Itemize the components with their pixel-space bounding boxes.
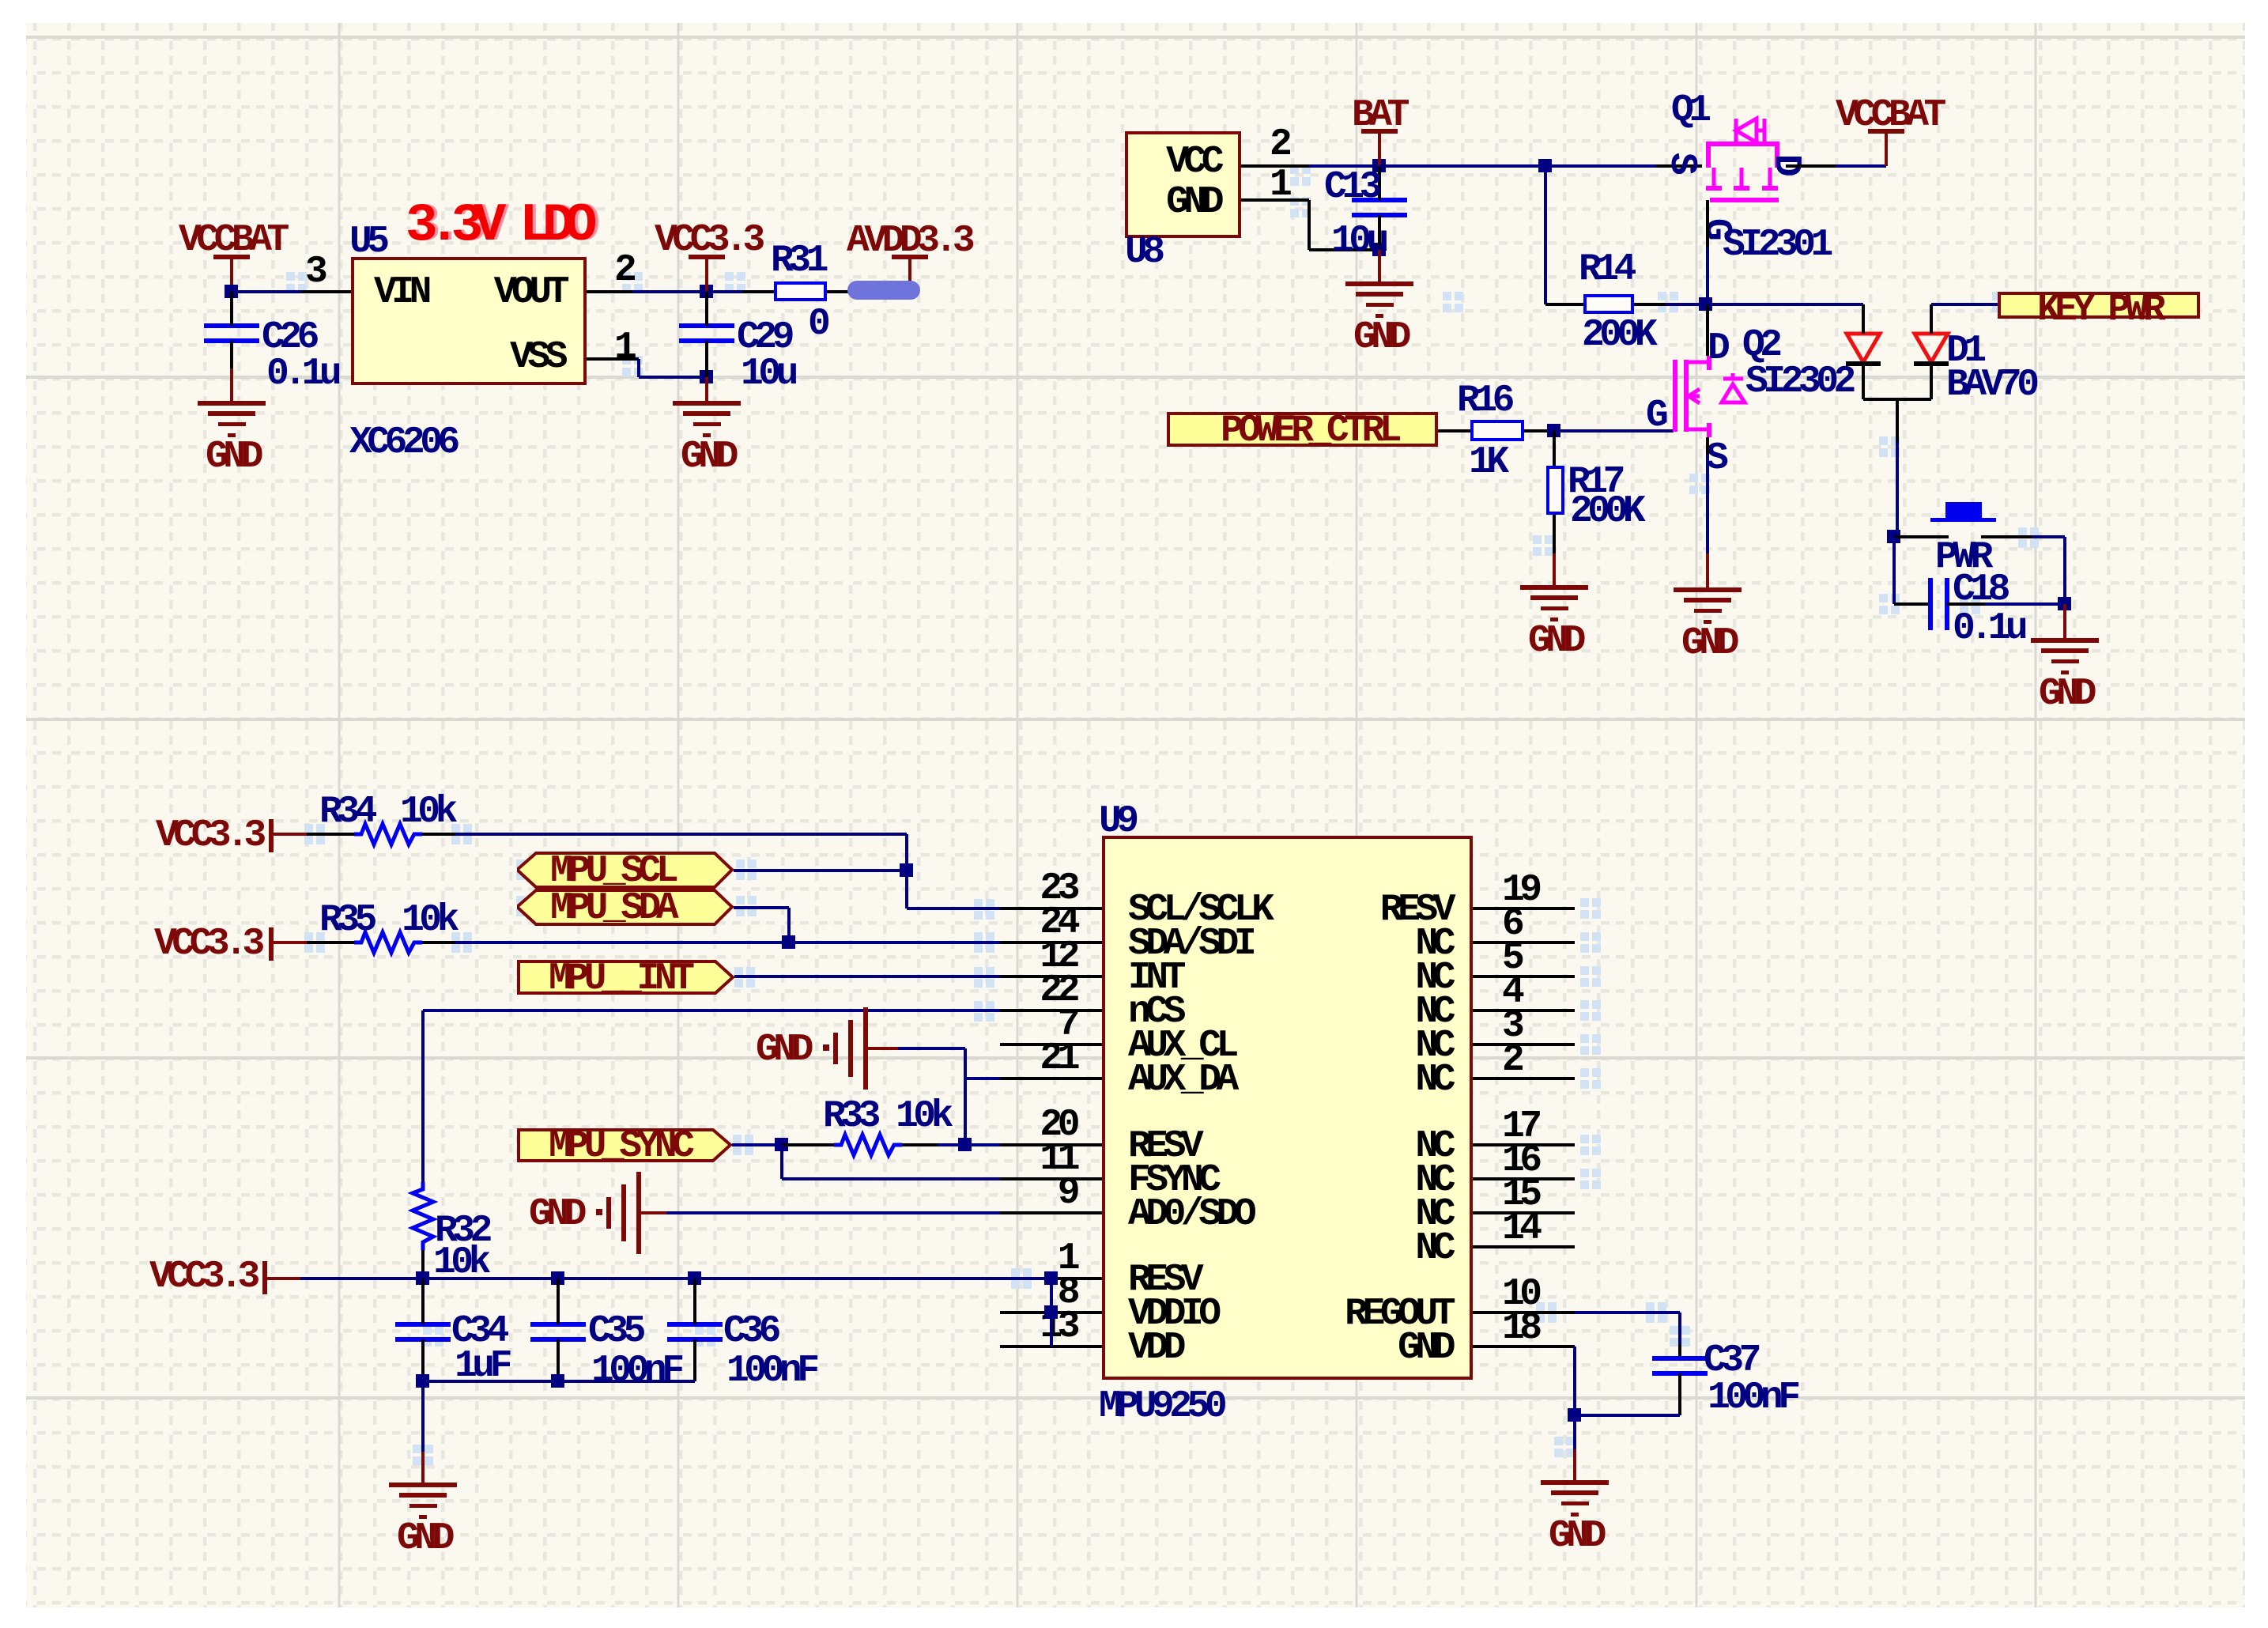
wire	[422, 941, 455, 944]
wire	[734, 869, 907, 872]
wire	[666, 1211, 1000, 1214]
label R32	[435, 1212, 488, 1250]
pin name REGOUT	[739, 1295, 1451, 1333]
label C29	[737, 319, 790, 357]
capacitor C34	[395, 1322, 451, 1327]
resistor R35	[0, 0, 8, 8]
wire	[423, 1380, 695, 1383]
label R35	[319, 901, 372, 939]
label Q2	[1742, 327, 1778, 365]
wire	[423, 1009, 1000, 1012]
wire	[1378, 166, 1381, 200]
wire	[230, 368, 233, 403]
label R34	[319, 793, 372, 831]
wire	[557, 1279, 560, 1324]
port POWER_CTRL	[1167, 412, 1438, 447]
wire	[1573, 1415, 1576, 1449]
capacitor C26	[204, 323, 259, 328]
junction	[551, 1374, 564, 1388]
wire	[965, 1077, 1000, 1080]
label 10k	[896, 1097, 949, 1135]
label U8	[1125, 233, 1160, 271]
wire	[964, 1048, 967, 1145]
wire	[230, 292, 233, 326]
wire	[1544, 166, 1547, 304]
wire pin stub	[1473, 1043, 1575, 1046]
label BAV70	[1946, 366, 2035, 404]
pin label G	[1646, 397, 1663, 435]
wire pin stub	[1473, 1143, 1575, 1146]
pin number 15	[1502, 1176, 1538, 1214]
wire	[557, 1339, 560, 1381]
port MPU__INT	[517, 960, 734, 995]
label U5	[349, 223, 385, 261]
pin name GND	[739, 1329, 1451, 1367]
wire	[1241, 198, 1309, 202]
highlight blob	[847, 281, 920, 300]
ground GND under C18	[2031, 638, 2099, 643]
label 100nF	[591, 1352, 680, 1390]
pin number 8	[364, 1274, 1075, 1312]
wire pin stub	[1473, 1077, 1575, 1080]
capacitor C13	[1352, 198, 1407, 202]
label C36	[723, 1313, 776, 1350]
wire	[307, 833, 354, 836]
wire	[1931, 303, 1998, 306]
wire pin stub	[1473, 1245, 1575, 1248]
wire	[1573, 1449, 1576, 1483]
wire	[1947, 602, 1985, 606]
resistor R16	[1470, 420, 1524, 441]
wire	[693, 1339, 696, 1381]
ground GND under C26	[198, 401, 266, 406]
pin label G	[1697, 218, 1735, 236]
power port VCC3.3	[269, 819, 274, 852]
pin number 20	[364, 1106, 1075, 1144]
power port VCC3.3	[689, 255, 725, 259]
wire	[1666, 303, 1706, 306]
label D	[1708, 330, 1725, 368]
wire	[1985, 602, 2065, 606]
label D1	[1946, 332, 1982, 370]
wire pin stub	[1000, 1143, 1102, 1146]
wire	[587, 290, 632, 293]
wire	[705, 341, 708, 377]
junction	[225, 285, 238, 298]
pin number 14	[1502, 1210, 1538, 1248]
wire	[1309, 164, 1379, 168]
label 10u	[741, 355, 794, 393]
pin number 1	[614, 329, 632, 367]
label C35	[588, 1313, 641, 1350]
junction	[700, 370, 713, 383]
wire	[1678, 1373, 1681, 1415]
wire	[1706, 247, 1709, 304]
wire	[1575, 1311, 1680, 1314]
wire	[1894, 535, 1949, 538]
junction	[1538, 159, 1552, 172]
wire	[1378, 131, 1381, 166]
pin name VDD	[1128, 1329, 1181, 1367]
wire pin stub	[1000, 1277, 1102, 1280]
port MPU_SYNC	[517, 1128, 732, 1162]
wire	[1930, 304, 1933, 334]
wire	[1706, 303, 1863, 306]
wire	[1438, 429, 1470, 432]
wire	[965, 1143, 1000, 1146]
label R31	[771, 242, 824, 280]
wire pin stub	[1000, 1043, 1102, 1046]
IC U9 MPU9250	[1102, 836, 1473, 1380]
wire	[230, 341, 233, 368]
wire	[230, 257, 233, 292]
ground GND under C37	[1541, 1480, 1609, 1485]
wire pin stub	[1000, 907, 1102, 910]
capacitor C36	[667, 1322, 723, 1327]
junction	[958, 1138, 972, 1151]
junction	[1547, 424, 1560, 437]
wire	[1524, 429, 1554, 432]
pin number 23	[364, 870, 1075, 908]
wire	[705, 292, 708, 326]
pin number 6	[1502, 905, 1519, 943]
power port VCCBAT right	[1868, 129, 1904, 134]
resistor R17	[1546, 466, 1564, 515]
IC U5 XC6206	[351, 257, 587, 385]
wire pin stub	[1000, 1177, 1102, 1180]
wire	[705, 257, 708, 292]
wire	[455, 833, 907, 836]
resistor R33	[0, 0, 8, 8]
pin number 21	[364, 1040, 1075, 1078]
wire	[1862, 304, 1865, 334]
port MPU_SDA	[517, 889, 734, 926]
port KEY_PWR	[1998, 292, 2200, 319]
resistor R32	[0, 0, 8, 8]
pin name NC	[739, 1128, 1451, 1165]
transistor Q1 SI2301	[0, 0, 8, 8]
wire	[938, 1143, 965, 1146]
label 0.1u	[1953, 610, 2023, 648]
pin number 24	[364, 904, 1075, 942]
label MPU9250	[1099, 1388, 1222, 1426]
wire	[637, 359, 640, 377]
ground GND under C34	[389, 1483, 457, 1487]
junction	[1699, 297, 1712, 311]
pin name NC	[739, 925, 1451, 963]
wire	[1786, 164, 1836, 168]
wire	[1678, 1313, 1681, 1344]
pin number 2	[1502, 1041, 1519, 1079]
wire	[421, 1279, 425, 1324]
junction	[551, 1271, 564, 1285]
pin label S	[1706, 440, 1723, 478]
pin name NC	[739, 1229, 1451, 1267]
pin name FSYNC	[1128, 1162, 1217, 1199]
wire	[780, 1145, 783, 1179]
pin name GND	[508, 183, 1219, 221]
wire	[1706, 455, 1709, 553]
wire	[734, 975, 1000, 978]
wire	[639, 1211, 666, 1214]
resistor R31	[774, 281, 827, 301]
junction	[416, 1271, 429, 1285]
wire	[1863, 398, 1931, 401]
pin name RESV	[739, 891, 1451, 929]
pin number 10	[1502, 1275, 1538, 1313]
wire	[1378, 250, 1381, 284]
ground bracket	[756, 1031, 809, 1069]
label 10k	[402, 901, 455, 939]
pin name RESV	[1128, 1261, 1198, 1299]
label U9	[1099, 803, 1134, 840]
capacitor C29	[679, 323, 734, 328]
label 100nF	[1708, 1379, 1796, 1417]
label R33	[823, 1097, 876, 1135]
wire	[1930, 365, 1933, 399]
pin name NC	[739, 1027, 1451, 1065]
junction	[900, 863, 913, 877]
pin name AD0/SDO	[1128, 1196, 1251, 1233]
pin name RESV	[1128, 1128, 1198, 1165]
pin number 7	[364, 1006, 1075, 1044]
wire	[1706, 304, 1709, 356]
pin label S	[1662, 153, 1700, 170]
wire pin stub	[1473, 1211, 1575, 1214]
switch PWR	[1945, 502, 1982, 519]
label PWR	[1935, 538, 1988, 576]
pin number 9	[364, 1174, 1075, 1212]
pin number 18	[1502, 1309, 1538, 1347]
wire pin stub	[1473, 1311, 1575, 1314]
label 100nF	[726, 1352, 815, 1390]
wire	[866, 1047, 898, 1050]
wire	[587, 357, 639, 361]
wire	[1896, 399, 1899, 442]
wire	[1981, 535, 2032, 538]
pin name AUX_CL	[1128, 1027, 1234, 1065]
wire	[1553, 431, 1556, 466]
pin number 2	[1270, 126, 1287, 164]
label POWER_CTRL	[1221, 412, 1397, 450]
wire pin stub	[1000, 1345, 1102, 1348]
capacitor C37	[1652, 1356, 1708, 1361]
wire pin stub	[1473, 1009, 1575, 1012]
wire	[232, 290, 301, 293]
wire	[2032, 535, 2065, 538]
wire	[1706, 553, 1709, 590]
wire	[827, 290, 910, 293]
wire	[421, 1381, 425, 1452]
wire	[782, 1177, 1000, 1180]
wire	[1706, 437, 1709, 455]
junction	[1887, 530, 1900, 543]
wire	[1553, 515, 1556, 553]
label 10k	[400, 793, 453, 831]
wire	[1885, 131, 1888, 166]
wire	[1575, 1414, 1680, 1417]
wire	[1862, 365, 1865, 399]
wire	[905, 834, 908, 871]
wire	[274, 833, 307, 836]
label SI2301	[1723, 226, 1828, 264]
label 10k	[433, 1244, 486, 1282]
pin number 22	[364, 972, 1075, 1010]
wire pin stub	[1473, 1177, 1575, 1180]
wire	[632, 290, 707, 293]
wire pin stub	[1000, 1077, 1102, 1080]
wire	[1553, 553, 1556, 587]
power port VCCBAT	[213, 255, 250, 259]
label C18	[1953, 571, 2006, 609]
pin number 1	[1270, 166, 1287, 204]
wire	[2063, 537, 2066, 604]
power port VCC3.3	[262, 1261, 267, 1294]
wire	[274, 941, 307, 944]
wire	[307, 941, 354, 944]
wire	[693, 1279, 696, 1324]
pin name INT	[1128, 959, 1181, 997]
junction	[782, 935, 795, 949]
label R14	[1579, 251, 1632, 289]
wire pin stub	[1473, 941, 1575, 944]
junction	[1372, 243, 1386, 256]
pin number 3	[1502, 1007, 1519, 1045]
junction	[1044, 1271, 1058, 1285]
pin number 19	[1502, 871, 1538, 909]
label 1uF	[455, 1347, 508, 1385]
junction	[1372, 159, 1386, 172]
wire	[1545, 164, 1656, 168]
wire	[422, 833, 455, 836]
wire	[1656, 164, 1702, 168]
pin number 12	[364, 938, 1075, 976]
wire	[1706, 200, 1709, 247]
capacitor C18	[1928, 578, 1933, 630]
capacitor C35	[530, 1322, 586, 1327]
junction	[775, 1138, 788, 1151]
label 1K	[1469, 444, 1504, 482]
pin number 3	[305, 253, 323, 291]
pin number 1	[364, 1240, 1075, 1278]
junction	[416, 1374, 429, 1388]
wire	[1573, 1347, 1576, 1415]
wire pin stub	[1000, 1211, 1102, 1214]
transistor Q2 SI2302	[0, 0, 8, 8]
pin name AUX_DA	[1128, 1061, 1234, 1099]
label C34	[451, 1313, 504, 1350]
wire pin stub	[1000, 941, 1102, 944]
label Q1	[1671, 92, 1707, 130]
wire	[902, 1143, 938, 1146]
wire	[1896, 442, 1899, 537]
wire	[1678, 1344, 1681, 1358]
wire	[742, 290, 774, 293]
wire	[707, 290, 742, 293]
power port BAT	[1361, 129, 1398, 134]
wire pin stub	[1473, 1345, 1575, 1348]
wire	[1836, 164, 1886, 168]
wire	[1545, 303, 1583, 306]
wire	[1308, 200, 1311, 250]
label R16	[1457, 382, 1510, 420]
wire	[734, 906, 789, 909]
wire	[1241, 164, 1309, 168]
pin name NC	[739, 959, 1451, 997]
wire	[907, 907, 1000, 910]
pin number 11	[364, 1140, 1075, 1178]
wire	[421, 1339, 425, 1381]
ground GND under C29	[673, 401, 741, 406]
label 200K	[1570, 493, 1640, 531]
wire	[639, 376, 707, 379]
port MPU_SCL	[517, 852, 734, 889]
ground GND under R17	[1520, 585, 1588, 590]
title 3.3V LDO	[406, 199, 587, 253]
wire pin stub	[1000, 1311, 1102, 1314]
label 0.1u	[266, 355, 337, 393]
label C37	[1704, 1342, 1757, 1380]
junction	[688, 1271, 701, 1285]
decorative	[622, 272, 631, 281]
wire	[1379, 164, 1545, 168]
pin name NC	[739, 1061, 1451, 1099]
pin label D	[1767, 154, 1805, 172]
label KEY PWR	[2037, 291, 2160, 329]
wire	[732, 1143, 782, 1146]
wire	[421, 1250, 425, 1279]
wire	[2063, 604, 2066, 640]
label C13	[1324, 168, 1377, 206]
junction	[2058, 597, 2071, 610]
wire	[421, 1010, 425, 1182]
pin number 5	[1502, 939, 1519, 977]
wire	[1378, 215, 1381, 250]
pin number 13	[364, 1308, 1075, 1346]
pin number 16	[1502, 1142, 1538, 1180]
pin number 2	[614, 251, 632, 289]
pin number 4	[1502, 973, 1519, 1011]
pin name NC	[739, 993, 1451, 1031]
junction	[1044, 1305, 1058, 1319]
pin name SDA/SDI	[1128, 925, 1251, 963]
label 10u	[1331, 222, 1384, 260]
wire	[455, 941, 1000, 944]
wire	[301, 290, 353, 293]
pin name VCC	[508, 143, 1219, 181]
resistor R34	[0, 0, 8, 8]
wire	[1634, 303, 1666, 306]
wire pin stub	[1000, 1009, 1102, 1012]
pin name SCL/SCLK	[1128, 891, 1269, 929]
wire	[300, 1277, 1051, 1280]
pin number 17	[1502, 1108, 1538, 1146]
wire	[782, 1143, 834, 1146]
junction	[1568, 1408, 1581, 1422]
label 200K	[1582, 316, 1652, 354]
wire	[421, 1452, 425, 1485]
wire	[1894, 602, 1930, 606]
resistor R14	[1583, 294, 1634, 314]
pin name NC	[739, 1162, 1451, 1199]
ground bracket	[529, 1196, 582, 1233]
label R17	[1568, 463, 1621, 501]
pin name nCS	[1128, 993, 1181, 1031]
label XC6206	[349, 424, 455, 462]
ground GND under C13	[1345, 281, 1413, 286]
wire	[1050, 1279, 1053, 1347]
wire pin stub	[1473, 907, 1575, 910]
